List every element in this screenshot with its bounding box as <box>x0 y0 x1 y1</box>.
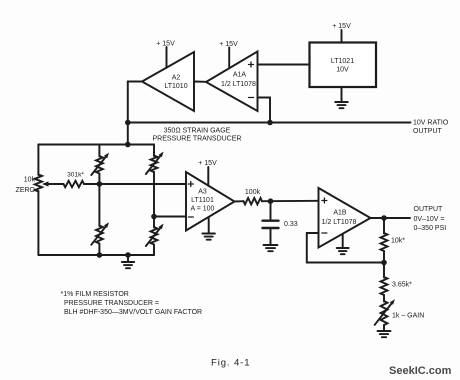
svg-text:10V: 10V <box>336 67 349 74</box>
op-amp A1A 1/2 LT1078 <box>206 52 258 112</box>
op-amp A1B 1/2 LT1078 <box>319 188 371 248</box>
svg-text:LT1010: LT1010 <box>164 83 187 90</box>
svg-text:SeekIC.com: SeekIC.com <box>389 365 452 377</box>
wire 301k to bridge mid <box>84 183 99 185</box>
10k ZERO label <box>16 177 36 195</box>
wire left leg bottom <box>98 244 100 256</box>
svg-text:100k: 100k <box>245 189 261 196</box>
svg-text:+ 15V: + 15V <box>332 23 351 30</box>
svg-text:10k: 10k <box>24 177 36 184</box>
A2 +15V supply wire <box>166 47 168 68</box>
wire A1B output <box>371 217 411 219</box>
node 10V rail left junction <box>125 120 131 126</box>
node bridge left mid junction <box>97 181 103 187</box>
svg-text:10k*: 10k* <box>391 238 405 245</box>
resistor 10k* <box>381 233 388 251</box>
wire bridge right mid to A3 - input <box>154 216 186 218</box>
strain gauge bottom-left <box>91 222 109 244</box>
resistor 100k <box>244 198 263 204</box>
svg-text:1/2 LT1078: 1/2 LT1078 <box>221 81 256 88</box>
potentiometer 10k ZERO <box>35 175 42 192</box>
capacitor 0.33 wire <box>270 201 272 219</box>
svg-text:BLH #DHF-350—3MV/VOLT GAIN FAC: BLH #DHF-350—3MV/VOLT GAIN FACTOR <box>64 309 202 316</box>
wire 10V ratio rail <box>128 122 411 124</box>
svg-text:301k*: 301k* <box>67 172 84 179</box>
wire bridge mid to A3 + input <box>99 183 186 185</box>
OUTPUT label <box>414 206 447 232</box>
svg-text:0V–10V =: 0V–10V = <box>414 216 445 223</box>
voltage reference U1 LT1021 <box>310 43 377 88</box>
1k ground wire <box>383 325 385 331</box>
wire 3.65k* to 1k <box>383 295 385 302</box>
3.65k* label <box>392 282 412 289</box>
wire right leg middle <box>153 172 155 228</box>
wire bridge bottom rail <box>38 254 154 256</box>
op-amp A3 LT1101 <box>186 172 235 231</box>
svg-text:*1% FILM RESISTOR: *1% FILM RESISTOR <box>61 291 129 298</box>
op-amp A2 LT1010 <box>142 52 194 111</box>
wire A2 output to bridge top <box>128 82 142 145</box>
wire left leg middle <box>98 174 100 227</box>
A3 +15V label <box>198 160 217 167</box>
wire bridge left leg top <box>98 145 100 157</box>
svg-text:+ 15V: + 15V <box>219 41 238 48</box>
10V RATIO OUTPUT label <box>413 120 449 136</box>
svg-text:1/2 LT1078: 1/2 LT1078 <box>322 219 357 226</box>
SeekIC.com watermark <box>389 365 452 377</box>
wire right leg bottom <box>153 245 155 256</box>
wire A1A - input to 10V rail <box>258 98 271 123</box>
wire bridge left outer top <box>37 145 39 176</box>
footnote *1% film resistor <box>61 291 203 316</box>
wire LT1021 output to A1A + input <box>258 64 310 66</box>
wire A1B - feedback loop <box>307 233 384 263</box>
A1B ground <box>337 235 349 255</box>
capacitor ground <box>264 229 278 251</box>
node bottom rail left junction <box>97 252 103 258</box>
svg-text:3.65k*: 3.65k* <box>392 282 412 289</box>
svg-text:A1B: A1B <box>333 210 347 217</box>
svg-text:0–350 PSI: 0–350 PSI <box>414 225 447 232</box>
node bridge top junction <box>125 142 131 148</box>
bridge ground <box>122 255 134 268</box>
svg-text:ZERO: ZERO <box>16 187 36 194</box>
wire 10k* to junction <box>383 251 385 263</box>
svg-text:+ 15V: + 15V <box>198 160 217 167</box>
wire 100k to A1B + input <box>262 200 319 202</box>
wire bridge right leg top <box>153 145 155 157</box>
10k* label <box>391 238 405 245</box>
A3 +15V supply wire <box>207 167 209 186</box>
svg-text:A3: A3 <box>198 189 207 196</box>
wire junction to 3.65k* <box>383 263 385 278</box>
node output junction <box>381 215 387 221</box>
A3 ground <box>202 218 215 240</box>
capacitor 0.33 <box>263 221 279 228</box>
strain gauge top-left <box>91 153 109 175</box>
svg-text:10V RATIO: 10V RATIO <box>413 120 449 127</box>
LT1021 ground <box>335 87 348 108</box>
svg-text:LT1021: LT1021 <box>331 58 354 65</box>
svg-text:Fig. 4-1: Fig. 4-1 <box>211 357 250 368</box>
wire A3 output <box>235 200 244 202</box>
resistor 3.65k* <box>381 277 388 295</box>
wire bridge top rail <box>38 144 154 146</box>
strain gauge top-right <box>146 152 164 174</box>
node A1A feedback junction <box>267 120 273 126</box>
svg-text:A1A: A1A <box>233 72 247 79</box>
0.33 label <box>284 221 298 228</box>
figure caption Fig. 4-1 <box>211 357 250 368</box>
350-ohm strain gage label <box>153 128 242 143</box>
svg-text:+ 15V: + 15V <box>156 41 175 48</box>
wire A1A output to A2 input <box>194 81 206 83</box>
svg-text:0.33: 0.33 <box>284 221 298 228</box>
resistor 301k* <box>64 181 85 187</box>
svg-text:LT1101: LT1101 <box>191 197 214 204</box>
A1A +15V supply wire <box>228 48 230 69</box>
1k GAIN label <box>392 313 424 320</box>
wire output to 10k* <box>383 218 385 234</box>
LT1021 +15V label <box>332 23 351 30</box>
svg-text:A2: A2 <box>172 75 181 82</box>
svg-text:PRESSURE TRANSDUCER: PRESSURE TRANSDUCER <box>153 136 242 143</box>
301k* label <box>67 172 84 179</box>
wire bridge left outer bottom <box>37 191 39 255</box>
100k label <box>245 189 261 196</box>
pot wiper arrow <box>42 181 64 186</box>
node bottom rail ground junction <box>125 252 131 258</box>
node feedback junction <box>381 260 387 266</box>
output divider ground <box>378 331 391 337</box>
svg-text:350Ω STRAIN GAGE: 350Ω STRAIN GAGE <box>164 128 231 135</box>
svg-text:1k – GAIN: 1k – GAIN <box>392 313 424 320</box>
svg-text:OUTPUT: OUTPUT <box>414 206 444 213</box>
node filter junction <box>268 198 274 204</box>
A1A +15V label <box>219 41 238 48</box>
trimmer 1k GAIN <box>375 299 395 325</box>
svg-text:OUTPUT: OUTPUT <box>413 128 443 135</box>
LT1021 +15V supply wire <box>341 30 343 43</box>
svg-text:PRESSURE TRANSDUCER =: PRESSURE TRANSDUCER = <box>64 300 159 307</box>
A2 +15V label <box>156 41 175 48</box>
svg-text:A = 100: A = 100 <box>191 206 215 213</box>
strain gauge bottom-right <box>146 224 164 246</box>
node bridge right mid junction <box>151 214 157 220</box>
